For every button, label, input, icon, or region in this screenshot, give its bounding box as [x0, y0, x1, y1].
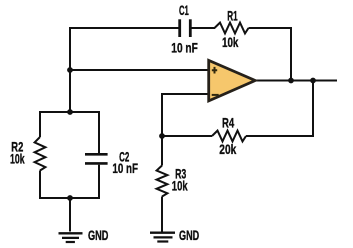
svg-text:10k: 10k — [172, 178, 188, 193]
wire: non-inverting input from node A to op-amp — [70, 69, 208, 71]
svg-text:20k: 20k — [219, 142, 236, 157]
junction: left vertical to parallel pair — [67, 109, 73, 115]
op-amp minus input marking — [212, 94, 219, 96]
op-amp plus input marking — [212, 67, 217, 74]
capacitor C2 leads — [98, 112, 100, 153]
junction node C: bottom rail to ground — [67, 195, 73, 201]
resistor R1 — [215, 23, 249, 34]
ground GND right — [150, 233, 175, 242]
junction node A (left vertical / +input) — [67, 67, 73, 73]
resistor R3 with leads — [161, 136, 163, 166]
ground GND left — [59, 233, 83, 242]
resistor R2 with leads — [39, 112, 41, 137]
wire: feedback from output node down to R4 — [246, 81, 313, 137]
wire: op-amp output to the right edge — [255, 80, 337, 82]
svg-text:C1: C1 — [179, 3, 189, 18]
wire: top rail of R2/C2 parallel pair — [39, 111, 100, 113]
resistor R4 — [212, 131, 246, 142]
wire: left vertical from node A up and top wire to C1 — [70, 28, 180, 113]
svg-text:10k: 10k — [222, 35, 239, 50]
svg-text:R4: R4 — [222, 116, 234, 131]
wire: bottom rail of R2/C2 parallel pair — [39, 197, 100, 199]
wire: ground stem from node C — [69, 198, 71, 232]
svg-text:10 nF: 10 nF — [112, 161, 138, 176]
wire: inverting input from op-amp left and down to node B — [162, 94, 208, 137]
capacitor C1 — [180, 19, 191, 37]
junction: R4 feedback at output — [310, 78, 316, 84]
svg-text:10k: 10k — [10, 151, 25, 166]
svg-text:R1: R1 — [227, 8, 238, 23]
wire: node B to R4 — [162, 135, 212, 137]
junction node B: inverting input / R3 / R4 — [159, 133, 165, 139]
svg-text:10 nF: 10 nF — [171, 40, 198, 55]
svg-text:GND: GND — [88, 228, 109, 243]
svg-text:GND: GND — [179, 228, 199, 243]
wire: C1 right plate to R1 — [190, 27, 215, 29]
op-amp U1 — [209, 60, 256, 101]
wire: R1 to right vertical down to output node — [249, 28, 292, 81]
junction: R1 feedback at output — [288, 78, 294, 84]
capacitor C2 plates — [85, 154, 108, 163]
